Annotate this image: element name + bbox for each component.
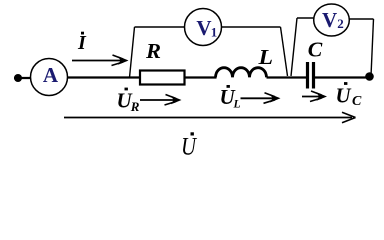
svg-text:L: L [257,45,273,69]
label: L value [257,45,273,69]
label: current I with derivative dot [77,32,87,54]
arrow: total voltage U direction [64,112,356,122]
arrow: U_C voltage direction [302,91,327,102]
voltmeter V1 [185,9,222,46]
wire: resistor to inductor [185,76,217,78]
label: C value [308,38,324,62]
label: voltage U_R with derivative dot [117,88,140,114]
svg-text:A: A [43,63,59,87]
svg-text:V: V [322,8,337,32]
resistor R [140,71,185,85]
node: right output terminal [365,72,374,81]
wire: left terminal to ammeter [14,77,31,79]
wire: V2 right lead down to output node [371,19,374,76]
voltmeter V2 [314,4,350,36]
arrow: U_L voltage direction [241,93,281,104]
wire: slant from node between L and C up to voltmeter V2 left lead [291,18,297,76]
inductor L [216,68,267,78]
svg-text:1: 1 [211,24,218,39]
ammeter A [31,59,68,96]
label: voltage U_C with derivative dot [336,82,363,109]
svg-text:I: I [77,32,87,54]
svg-text:U: U [181,134,198,161]
svg-text:2: 2 [337,16,344,31]
node: left input terminal [14,74,22,82]
wire: slant from node before R up to voltmeter V1 left lead [130,27,135,78]
svg-text:R: R [130,99,140,114]
current arrow I [72,55,129,66]
wire: V1 right horizontal lead [222,26,281,28]
wire: V1 left horizontal lead [135,26,185,28]
label: total voltage U with derivative dot [181,132,198,160]
capacitor C [308,62,314,89]
label: voltage U_L with derivative dot [220,85,241,110]
wire: slant from V1 right lead down to node between L and C [281,27,288,76]
wire: inductor to capacitor (through node between L and C) [267,76,307,78]
wire: V2 right horizontal lead [350,18,374,20]
wire: ammeter to resistor R [68,76,141,78]
svg-text:U: U [336,84,353,108]
label: R value [145,39,161,63]
svg-text:C: C [308,38,324,62]
svg-text:V: V [196,16,211,40]
svg-text:L: L [233,98,241,110]
svg-text:C: C [352,94,362,109]
arrow: U_R voltage direction [140,95,182,106]
wire: V2 left horizontal lead [297,17,314,19]
wire: capacitor to right output terminal [315,76,373,78]
svg-text:R: R [145,39,161,63]
